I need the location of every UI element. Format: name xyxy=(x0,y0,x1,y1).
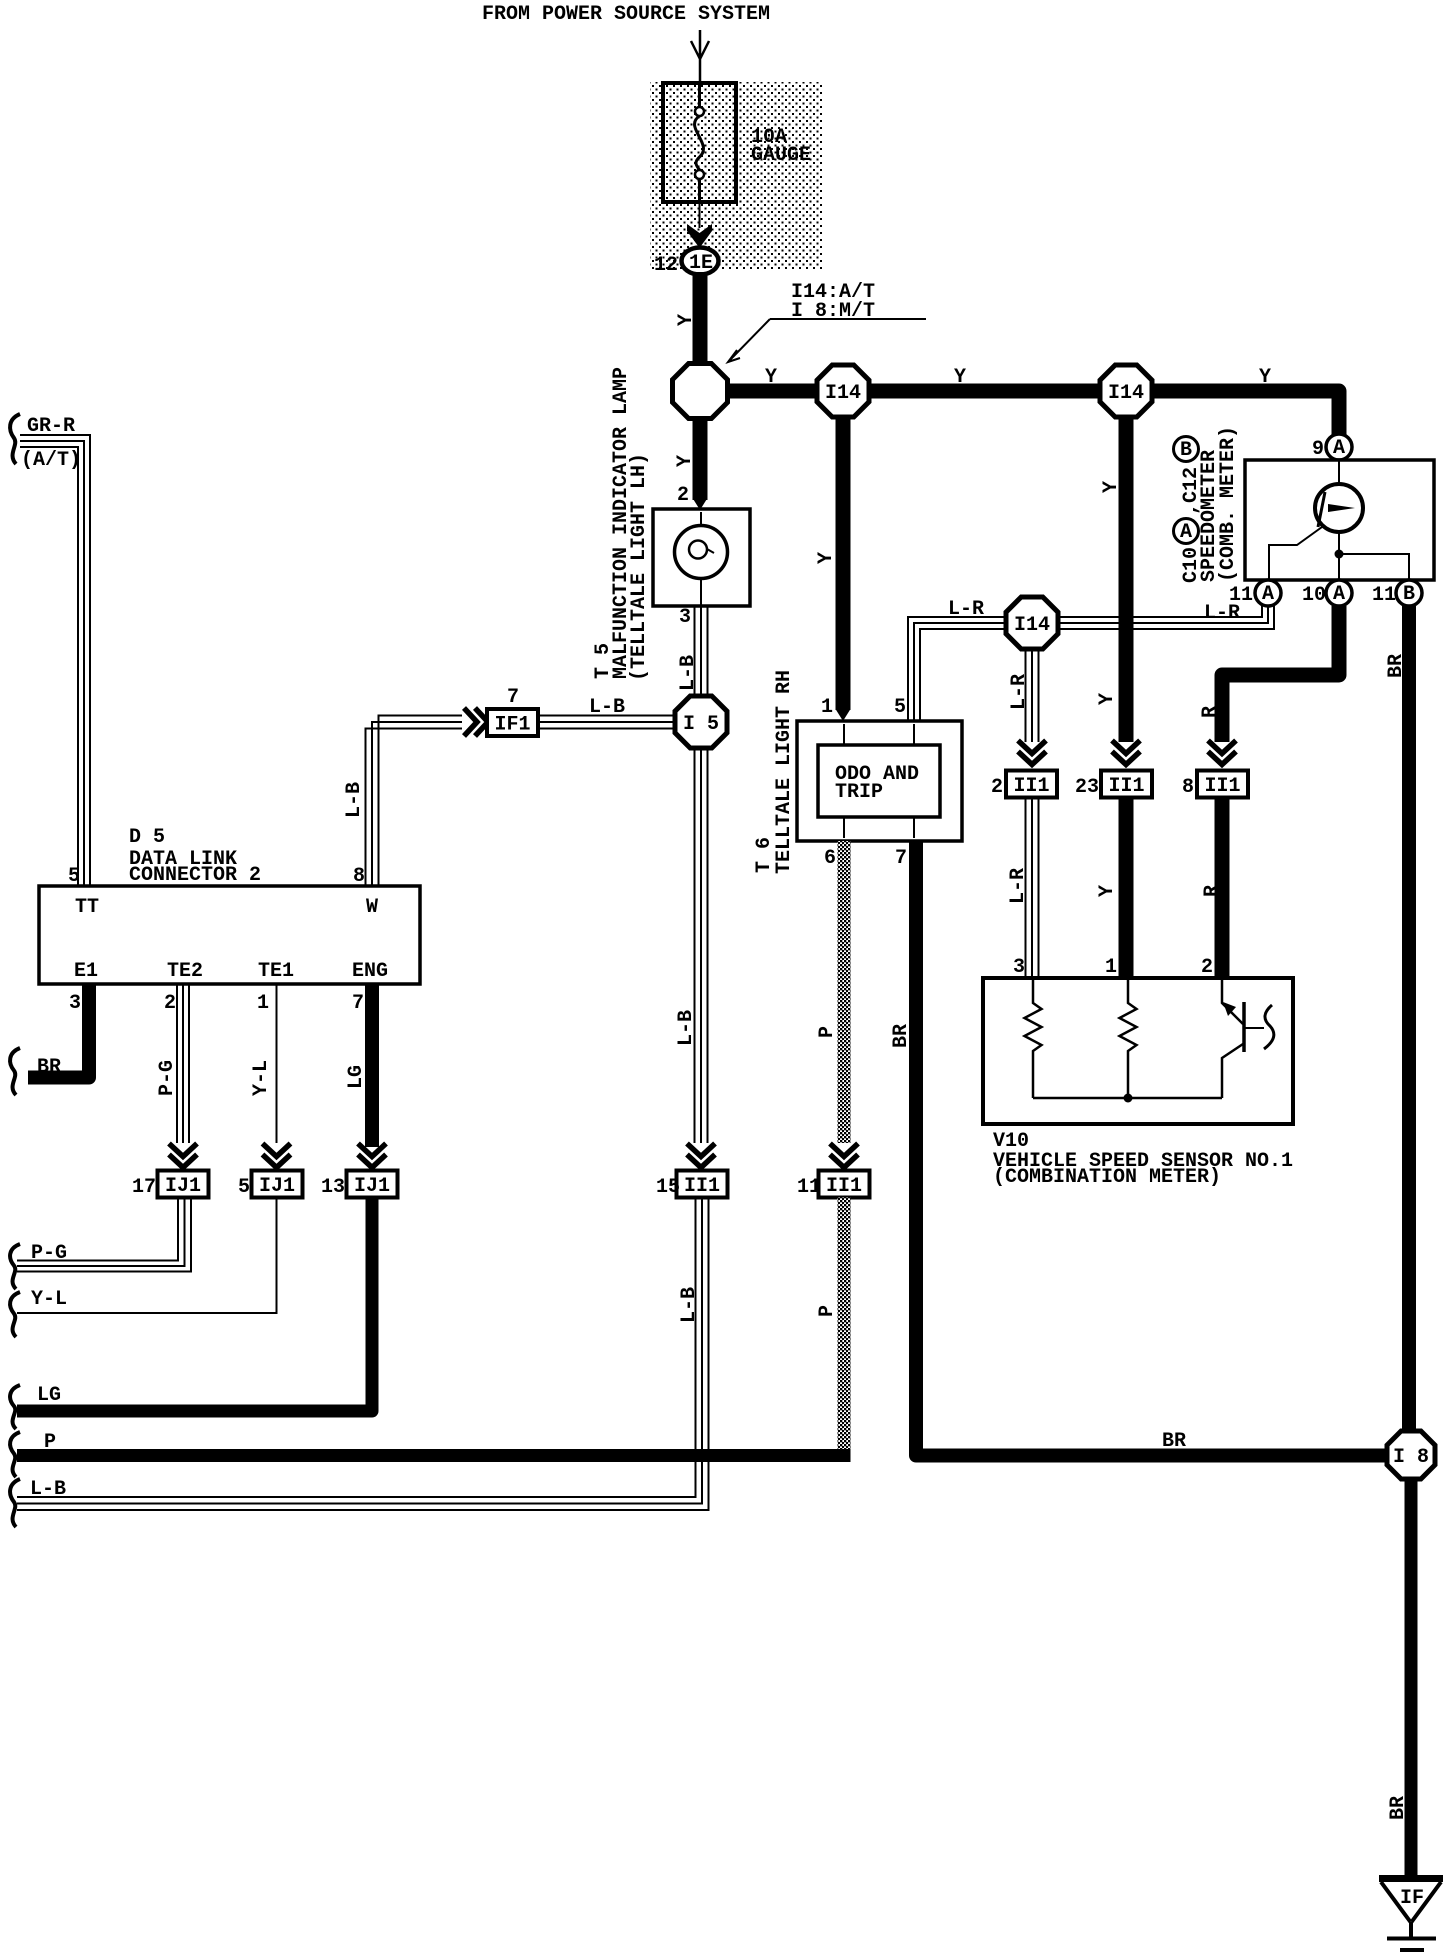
arrow into IF1 xyxy=(464,708,488,736)
svg-text:II1: II1 xyxy=(684,1175,720,1198)
svg-text:P-G: P-G xyxy=(156,1060,179,1096)
brace GR-R xyxy=(10,414,20,464)
svg-text:8: 8 xyxy=(1182,776,1194,799)
transistor sensor element xyxy=(1222,980,1243,1098)
svg-text:Y: Y xyxy=(674,455,697,467)
arrow into II1 (23) xyxy=(1112,741,1140,765)
svg-text:P: P xyxy=(816,1026,839,1038)
svg-text:A: A xyxy=(1333,583,1345,606)
svg-text:7: 7 xyxy=(507,686,519,709)
wire power feed arrow xyxy=(691,30,709,84)
odo and trip box xyxy=(818,745,940,817)
wire tip into MIL box xyxy=(693,498,708,510)
svg-text:I14: I14 xyxy=(825,382,861,405)
svg-text:I 5: I 5 xyxy=(683,713,719,736)
svg-text:15: 15 xyxy=(656,1176,680,1199)
svg-text:I14: I14 xyxy=(1108,382,1144,405)
svg-text:23: 23 xyxy=(1075,776,1099,799)
svg-text:Y: Y xyxy=(1096,885,1119,897)
svg-text:(COMB. METER): (COMB. METER) xyxy=(1217,426,1240,582)
wire Y main run to speedometer xyxy=(700,391,1339,447)
connector II1 pin 8 xyxy=(1197,771,1248,798)
svg-text:BR: BR xyxy=(1162,1430,1186,1453)
svg-text:L-B: L-B xyxy=(675,1010,698,1046)
svg-text:D 5: D 5 xyxy=(129,826,165,849)
svg-text:L-B: L-B xyxy=(589,696,625,719)
brace LG xyxy=(10,1385,20,1429)
svg-text:Y-L: Y-L xyxy=(31,1288,67,1311)
svg-text:3: 3 xyxy=(679,606,691,629)
brace L-B xyxy=(10,1479,20,1527)
arrow into II1 (15) xyxy=(687,1144,715,1168)
svg-text:11: 11 xyxy=(797,1176,821,1199)
svg-text:TRIP: TRIP xyxy=(835,781,883,804)
svg-text:E1: E1 xyxy=(74,960,98,983)
svg-text:LG: LG xyxy=(345,1065,368,1089)
wire P gray upper xyxy=(838,841,851,1143)
wire LG upper xyxy=(365,984,379,1147)
svg-text:12: 12 xyxy=(654,254,678,277)
brace Y-L xyxy=(10,1292,20,1337)
vehicle speed sensor box xyxy=(983,978,1293,1124)
wire L-B bottom xyxy=(17,1198,709,1511)
connector I14 (1) xyxy=(817,365,869,417)
junction dot xyxy=(1335,550,1344,559)
svg-text:FROM POWER SOURCE SYSTEM: FROM POWER SOURCE SYSTEM xyxy=(482,3,770,26)
svg-text:13: 13 xyxy=(321,1176,345,1199)
malfunction indicator lamp box xyxy=(653,509,750,606)
svg-text:Y: Y xyxy=(675,314,698,326)
svg-text:Y: Y xyxy=(1259,366,1271,389)
pin 11 B xyxy=(1396,580,1422,606)
data link connector 2 box xyxy=(39,886,420,984)
wire P bottom horizontal xyxy=(17,1449,851,1462)
fuse 10A GAUGE box xyxy=(663,83,736,202)
svg-text:L-B: L-B xyxy=(678,1287,701,1323)
wire L-B IF1 to I5 xyxy=(538,716,678,729)
svg-text:3: 3 xyxy=(1013,956,1025,979)
svg-text:L-R: L-R xyxy=(948,598,984,621)
svg-text:L-B: L-B xyxy=(343,782,366,818)
wire fuse to 1E xyxy=(699,202,701,228)
wire R to V10 pin 2 xyxy=(1215,798,1230,979)
wire R from pin 10A xyxy=(1222,606,1339,742)
svg-text:B: B xyxy=(1403,583,1415,606)
svg-text:L-B: L-B xyxy=(30,1478,66,1501)
wire Y-L upper xyxy=(276,984,278,1143)
wire W/L-B ribbon from D5 xyxy=(366,716,463,886)
svg-text:9: 9 xyxy=(1312,438,1324,461)
shaded harness region xyxy=(650,82,823,270)
speedometer box xyxy=(1245,460,1434,580)
internal ground rail xyxy=(1033,1097,1222,1100)
connector 1E pin 12 xyxy=(682,248,719,275)
wire Y to V10 pin 1 xyxy=(1119,798,1134,979)
svg-text:IF: IF xyxy=(1400,1887,1424,1910)
svg-text:IF1: IF1 xyxy=(494,714,530,737)
arrow into connector 1E xyxy=(687,224,712,248)
arrow into IJ1 (17) xyxy=(169,1144,197,1168)
pin 11 A xyxy=(1255,580,1281,606)
arrow into II1 (2) xyxy=(1018,741,1046,765)
svg-text:IJ1: IJ1 xyxy=(354,1175,390,1198)
svg-text:Y-L: Y-L xyxy=(250,1060,273,1096)
svg-text:IJ1: IJ1 xyxy=(165,1175,201,1198)
junction node octagon xyxy=(673,364,728,419)
svg-text:(A/T): (A/T) xyxy=(21,449,81,472)
wire P-G ribbon upper xyxy=(177,984,189,1143)
svg-text:3: 3 xyxy=(69,992,81,1015)
svg-text:1: 1 xyxy=(257,992,269,1015)
resistor R1 xyxy=(1025,980,1042,1098)
arrow into II1 (11) xyxy=(830,1144,858,1168)
svg-text:II1: II1 xyxy=(1108,775,1144,798)
svg-text:2: 2 xyxy=(164,992,176,1015)
wire tip into telltale box xyxy=(836,709,851,721)
wire Y I14(1) to telltale pin 1 xyxy=(836,416,851,710)
svg-text:2: 2 xyxy=(1201,956,1213,979)
svg-text:BR: BR xyxy=(37,1056,61,1079)
svg-text:Y: Y xyxy=(1100,481,1123,493)
svg-text:L-R: L-R xyxy=(1204,602,1240,625)
internal branch to pin 11B xyxy=(1339,554,1409,580)
svg-text:TE1: TE1 xyxy=(258,960,294,983)
svg-text:BR: BR xyxy=(1385,654,1408,678)
svg-text:7: 7 xyxy=(352,992,364,1015)
wire Y junction down to MIL xyxy=(693,391,708,500)
svg-text:I14: I14 xyxy=(1014,614,1050,637)
svg-text:W: W xyxy=(366,896,378,919)
wire LG lower xyxy=(17,1198,372,1412)
arrow into IJ1 (13) xyxy=(358,1144,386,1168)
brace P-G xyxy=(10,1244,20,1289)
connector I8 xyxy=(1387,1431,1435,1479)
speedometer gauge xyxy=(1315,484,1363,532)
svg-text:TE2: TE2 xyxy=(167,960,203,983)
svg-text:TT: TT xyxy=(75,896,99,919)
connector I14 (2) xyxy=(1100,365,1152,417)
svg-text:R: R xyxy=(1201,885,1224,897)
svg-text:A: A xyxy=(1262,583,1274,606)
svg-text:Y: Y xyxy=(765,366,777,389)
svg-text:11: 11 xyxy=(1372,584,1396,607)
svg-text:TELLTALE LIGHT RH: TELLTALE LIGHT RH xyxy=(773,670,796,874)
wire BR from telltale pin 7 xyxy=(916,841,1390,1456)
svg-text:10: 10 xyxy=(1302,584,1326,607)
svg-text:CONNECTOR 2: CONNECTOR 2 xyxy=(129,864,261,887)
svg-text:1E: 1E xyxy=(689,252,713,275)
svg-text:2: 2 xyxy=(677,484,689,507)
speedometer internal wire bottom xyxy=(1338,532,1340,580)
svg-text:7: 7 xyxy=(895,847,907,870)
svg-text:1: 1 xyxy=(821,696,833,719)
connector I14 (3) xyxy=(1006,597,1058,649)
svg-text:L-R: L-R xyxy=(1007,868,1030,904)
ground IF xyxy=(1379,1875,1443,1882)
wire BR from pin 11B xyxy=(1402,606,1416,1436)
wire GR-R ribbon xyxy=(20,435,90,885)
svg-text:A: A xyxy=(1180,521,1192,544)
svg-text:Y: Y xyxy=(1096,693,1119,705)
svg-text:A: A xyxy=(1333,437,1345,460)
telltale light RH box xyxy=(797,721,962,841)
connector II1 pin 11 xyxy=(819,1171,870,1198)
svg-text:II1: II1 xyxy=(1013,775,1049,798)
arrow into II1 (8) xyxy=(1208,741,1236,765)
svg-text:5: 5 xyxy=(238,1176,250,1199)
junction dot V10 xyxy=(1124,1094,1133,1103)
wire L-R branch upper xyxy=(1026,649,1039,742)
speedometer internal wire top xyxy=(1338,460,1340,484)
svg-text:II1: II1 xyxy=(1204,775,1240,798)
svg-text:ENG: ENG xyxy=(352,960,388,983)
wire BR from E1 xyxy=(28,984,89,1078)
connector I5 xyxy=(675,696,727,748)
wire Y to II1 (23) xyxy=(1119,416,1134,742)
svg-text:Y: Y xyxy=(954,366,966,389)
svg-text:P: P xyxy=(44,1431,56,1454)
svg-text:1: 1 xyxy=(1105,956,1117,979)
connector II1 pin 15 xyxy=(677,1171,728,1198)
svg-text:L-R: L-R xyxy=(1008,674,1031,710)
wire L-R ribbon xyxy=(908,606,1274,721)
connector II1 pin 23 xyxy=(1101,771,1152,798)
svg-text:BR: BR xyxy=(890,1024,913,1048)
svg-text:6: 6 xyxy=(824,847,836,870)
arrow into IJ1 (5) xyxy=(263,1144,291,1168)
wire L-R branch lower xyxy=(1026,798,1039,979)
wire Y-L lower xyxy=(17,1198,277,1314)
svg-text:IJ1: IJ1 xyxy=(259,1175,295,1198)
svg-text:I 8: I 8 xyxy=(1393,1446,1429,1469)
svg-text:5: 5 xyxy=(894,696,906,719)
wire BR to ground xyxy=(1405,1479,1418,1875)
wire L-B MIL to I5 xyxy=(695,606,708,697)
svg-text:GAUGE: GAUGE xyxy=(751,144,811,167)
svg-text:2: 2 xyxy=(991,776,1003,799)
svg-text:(COMBINATION METER): (COMBINATION METER) xyxy=(993,1166,1221,1189)
brace P xyxy=(10,1432,20,1477)
svg-text:L-B: L-B xyxy=(677,655,700,691)
connector II1 pin 2 xyxy=(1006,771,1057,798)
svg-text:Y: Y xyxy=(815,552,838,564)
svg-text:P: P xyxy=(816,1305,839,1317)
wire Y from 1E to junction xyxy=(693,272,708,367)
wire P gray lower xyxy=(838,1198,851,1450)
resistor R2 xyxy=(1120,980,1137,1098)
pin 9 A of speedometer xyxy=(1326,434,1352,460)
svg-text:P-G: P-G xyxy=(31,1242,67,1265)
svg-text:II1: II1 xyxy=(826,1175,862,1198)
connector IJ1 pin 13 xyxy=(347,1171,398,1198)
svg-text:17: 17 xyxy=(132,1176,156,1199)
svg-text:LG: LG xyxy=(37,1384,61,1407)
svg-text:R: R xyxy=(1199,706,1222,718)
connector IJ1 pin 5 xyxy=(252,1171,303,1198)
connector IJ1 pin 17 xyxy=(158,1171,209,1198)
pin 10 A xyxy=(1326,580,1352,606)
internal switch branch to pin 11A xyxy=(1269,527,1322,580)
connector IF1 pin 7 xyxy=(487,709,538,736)
fuse element xyxy=(695,84,704,202)
wire L-B I5 down xyxy=(695,747,708,1143)
brace BR xyxy=(10,1048,20,1095)
svg-text:(TELLTALE LIGHT LH): (TELLTALE LIGHT LH) xyxy=(628,453,651,681)
svg-text:B: B xyxy=(1180,439,1192,462)
lamp symbol xyxy=(700,512,702,526)
svg-text:BR: BR xyxy=(1387,1796,1410,1820)
wire P-G ribbon lower xyxy=(17,1198,191,1272)
